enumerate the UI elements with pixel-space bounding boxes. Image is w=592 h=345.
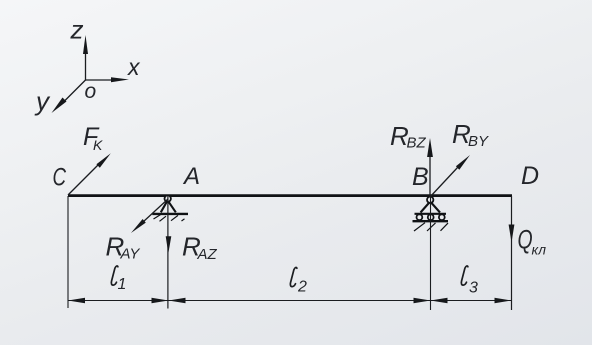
dimension arrow at A pointing left (169, 298, 186, 304)
dimension l2 label (290, 267, 307, 295)
svg-text:AY: AY (120, 246, 141, 263)
svg-text:y: y (34, 86, 51, 116)
load Q_kl label (518, 224, 547, 257)
svg-text:x: x (127, 54, 141, 80)
dimension l3 label (461, 266, 478, 297)
reaction R_BZ label (390, 121, 427, 152)
svg-text:o: o (85, 80, 97, 103)
axis x (86, 77, 130, 82)
svg-text:Q: Q (518, 224, 533, 254)
svg-text:кл: кл (532, 242, 547, 258)
svg-text:BZ: BZ (407, 135, 427, 152)
reaction R_AY label (106, 232, 141, 263)
reaction R_AZ label (182, 232, 218, 264)
dimension line l1-l2-l3 (68, 300, 512, 302)
dimension l1 label (111, 266, 126, 293)
reaction R_BZ vector (427, 138, 433, 197)
axis z (83, 35, 88, 80)
svg-text:1: 1 (118, 276, 127, 293)
axis y (52, 80, 86, 113)
dimension arrow at D pointing right (495, 298, 512, 304)
dimension arrow at A pointing right (152, 298, 169, 304)
svg-text:2: 2 (297, 279, 307, 296)
svg-text:C: C (53, 163, 67, 191)
svg-text:3: 3 (469, 280, 478, 297)
svg-text:K: K (93, 137, 103, 153)
extension line at B (430, 196, 432, 310)
svg-text:D: D (521, 162, 539, 190)
dimension arrow at B pointing right (414, 298, 431, 304)
support A (pin) (152, 195, 188, 221)
support B (roller) (413, 197, 449, 231)
reaction R_AZ vector (down along extension line) (166, 196, 172, 309)
beam CD (68, 194, 512, 197)
extension line at C (67, 196, 69, 308)
reaction R_AY vector (131, 199, 168, 233)
reaction R_BY label (452, 119, 489, 150)
svg-text:AZ: AZ (197, 246, 218, 263)
svg-text:B: B (412, 163, 429, 191)
svg-text:BY: BY (468, 133, 489, 150)
dimension arrow at B pointing left (431, 298, 448, 304)
svg-text:z: z (70, 15, 84, 45)
svg-text:A: A (182, 163, 200, 190)
dimension arrow at C pointing left (68, 298, 85, 304)
reaction R_BY vector (430, 155, 470, 197)
load Q_kl vector at D (509, 196, 515, 310)
force F_K label (83, 123, 103, 153)
force F_K vector (68, 153, 111, 195)
